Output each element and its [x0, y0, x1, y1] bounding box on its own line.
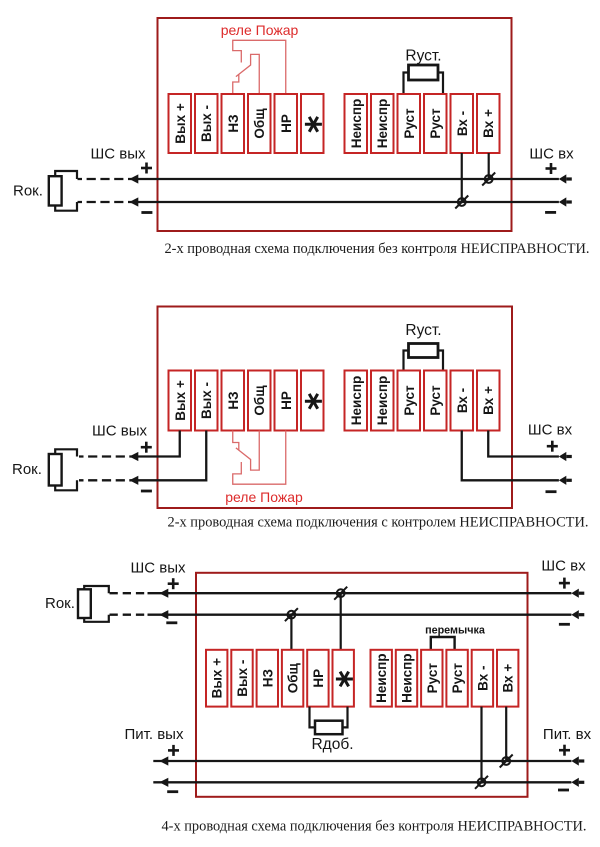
junction node Вх- (D3)	[475, 776, 488, 789]
terminal Неиспр (D1)	[371, 94, 394, 153]
svg-text:Общ: Общ	[286, 662, 301, 693]
terminal Руст (D3)	[446, 650, 467, 707]
svg-text:Вх +: Вх +	[481, 386, 496, 415]
svg-text:реле Пожар: реле Пожар	[225, 489, 303, 505]
terminal Руст (D3)	[421, 650, 442, 707]
relay contact K1 (реле Пожар, D1)	[233, 40, 286, 93]
relay contact K1 (реле Пожар, D2)	[233, 431, 286, 485]
junction node Вх- (D1)	[455, 196, 468, 209]
svg-text:Rуст.: Rуст.	[405, 322, 441, 339]
terminal Вых - (D1)	[195, 94, 218, 153]
terminal Вх - (D3)	[472, 650, 493, 707]
label - (ШС вых D2)	[141, 490, 152, 493]
terminal Вых + (D1)	[169, 94, 192, 153]
resistor Rок (D3)	[78, 586, 109, 622]
terminal Неиспр (D2)	[345, 371, 368, 431]
label - (ШС вх D1)	[545, 211, 556, 214]
svg-text:Руст: Руст	[428, 108, 443, 139]
svg-text:Неиспр: Неиспр	[375, 99, 390, 148]
svg-text:НЗ: НЗ	[260, 669, 275, 687]
svg-text:Руст: Руст	[402, 385, 417, 416]
terminal Неиспр (D2)	[371, 371, 394, 431]
wire Вх+ to Пит+ (D3)	[505, 707, 507, 761]
terminal НР (D1)	[275, 94, 298, 153]
wire ШС+ (D1)	[78, 174, 572, 183]
resistor Rок (D1)	[49, 171, 77, 211]
wire asterisk to ШС+ (D3)	[340, 593, 342, 650]
label + (ШС вх D3)	[559, 582, 570, 585]
label - (Пит. вх D3)	[558, 789, 569, 792]
svg-text:Вх -: Вх -	[455, 111, 470, 136]
wire Вх- to ШС- (D2)	[462, 431, 559, 481]
svg-text:Неиспр: Неиспр	[349, 99, 364, 148]
svg-text:ШС вх: ШС вх	[541, 558, 586, 575]
svg-text:Вых +: Вых +	[173, 103, 188, 144]
terminal Вых + (D2)	[169, 371, 192, 431]
resistor Rуст (D2)	[404, 344, 444, 371]
label - (ШС вых D1)	[141, 211, 152, 214]
wire Вх- to Пит- (D3)	[480, 707, 482, 783]
terminal Неиспр (D1)	[345, 94, 368, 153]
wire Вх+ to ШС+ (D2)	[488, 431, 559, 457]
terminal Вх - (D2)	[451, 371, 474, 431]
terminal НР (D3)	[307, 650, 328, 707]
terminal Руст (D2)	[398, 371, 421, 431]
terminal Руст (D1)	[424, 94, 447, 153]
svg-text:Вх -: Вх -	[455, 388, 470, 413]
terminal asterisk (D3)	[333, 650, 354, 707]
svg-text:ШС вых: ШС вых	[131, 560, 186, 577]
terminal asterisk (D1)	[301, 94, 324, 153]
terminal Неиспр (D3)	[371, 650, 392, 707]
terminal НЗ (D1)	[222, 94, 245, 153]
svg-text:Вх +: Вх +	[481, 109, 496, 138]
svg-text:ШС вых: ШС вых	[91, 146, 146, 163]
terminal Вых - (D3)	[231, 650, 252, 707]
svg-text:Пит. вых: Пит. вых	[125, 726, 184, 743]
svg-text:Общ: Общ	[252, 108, 267, 139]
wire Общ to ШС- (D3)	[290, 615, 292, 650]
svg-text:Неиспр: Неиспр	[400, 653, 415, 702]
svg-text:Rок.: Rок.	[45, 595, 75, 612]
svg-text:2-х проводная схема подключени: 2-х проводная схема подключения с контро…	[168, 515, 589, 531]
svg-text:Руст: Руст	[425, 663, 440, 694]
svg-text:Вых +: Вых +	[210, 658, 225, 699]
wire Вых- to ШС- (D2)	[129, 431, 206, 481]
label + (ШС вх D2)	[547, 445, 558, 448]
terminal Вх - (D1)	[451, 94, 474, 153]
svg-text:НР: НР	[279, 114, 294, 133]
label - (ШС вх D3)	[559, 623, 570, 626]
svg-text:перемычка: перемычка	[425, 625, 486, 637]
svg-text:Неиспр: Неиспр	[375, 376, 390, 425]
junction node Общ (D3)	[285, 608, 298, 621]
wire ШС- (D3)	[110, 610, 585, 619]
wire Пит+ (D3)	[153, 756, 584, 765]
svg-text:2-х проводная схема подключени: 2-х проводная схема подключения без конт…	[164, 241, 589, 257]
svg-text:Вх +: Вх +	[501, 664, 516, 693]
svg-text:Руст: Руст	[428, 385, 443, 416]
label + (Пит. вых D3)	[168, 749, 179, 752]
device box (D1)	[158, 18, 512, 231]
svg-text:Вых -: Вых -	[199, 105, 214, 142]
label + (ШС вых D1)	[141, 167, 152, 170]
svg-text:Пит. вх: Пит. вх	[543, 726, 592, 743]
label - (ШС вх D2)	[546, 490, 557, 493]
svg-text:Руст: Руст	[450, 663, 465, 694]
terminal Вых + (D3)	[206, 650, 227, 707]
terminal Общ (D1)	[248, 94, 271, 153]
terminal Общ (D3)	[282, 650, 303, 707]
svg-text:Rок.: Rок.	[12, 461, 42, 478]
terminal Руст (D2)	[424, 371, 447, 431]
svg-text:Rдоб.: Rдоб.	[311, 736, 353, 753]
label + (Пит. вх D3)	[559, 749, 570, 752]
device box (D3)	[196, 573, 528, 797]
svg-text:ШС вх: ШС вх	[528, 422, 573, 439]
svg-text:реле Пожар: реле Пожар	[221, 22, 299, 38]
svg-text:Вых -: Вых -	[199, 382, 214, 419]
svg-text:НР: НР	[279, 391, 294, 410]
junction node Вх+ (D1)	[482, 173, 495, 186]
jumper перемычка (D3)	[431, 637, 455, 650]
terminal НЗ (D3)	[257, 650, 278, 707]
svg-text:Руст: Руст	[402, 108, 417, 139]
terminal НР (D2)	[275, 371, 298, 431]
label - (ШС вых D3)	[166, 621, 177, 624]
junction node Вх+ (D3)	[500, 755, 513, 768]
terminal Вх + (D2)	[477, 371, 500, 431]
device box (D2)	[158, 307, 513, 509]
label + (ШС вх D1)	[546, 167, 557, 170]
svg-text:Неиспр: Неиспр	[374, 653, 389, 702]
svg-text:Rуст.: Rуст.	[405, 48, 441, 65]
svg-text:НЗ: НЗ	[226, 114, 241, 132]
terminal Руст (D1)	[398, 94, 421, 153]
resistor Rок (D2)	[49, 449, 77, 490]
terminal Общ (D2)	[248, 371, 271, 431]
label - (Пит. вых D3)	[167, 790, 178, 793]
svg-text:НЗ: НЗ	[226, 391, 241, 409]
resistor Rдоб (D3)	[310, 707, 348, 735]
terminal НЗ (D2)	[222, 371, 245, 431]
svg-text:ШС вых: ШС вых	[92, 423, 147, 440]
terminal asterisk (D2)	[301, 371, 324, 431]
wire Вх- to ШС- (D1)	[461, 153, 463, 202]
terminal Вых - (D2)	[195, 371, 218, 431]
junction node asterisk (D3)	[334, 587, 347, 600]
wire Пит- (D3)	[153, 778, 584, 787]
wire ШС+ (D3)	[110, 589, 585, 598]
svg-text:НР: НР	[311, 669, 326, 688]
svg-text:Вых +: Вых +	[173, 380, 188, 421]
svg-text:Неиспр: Неиспр	[349, 376, 364, 425]
label + (ШС вых D2)	[141, 446, 152, 449]
wire ШС- (D1)	[78, 197, 572, 206]
svg-text:Общ: Общ	[252, 385, 267, 416]
terminal Вх + (D3)	[497, 650, 518, 707]
wire Вх+ to ШС+ (D1)	[488, 153, 490, 179]
terminal Вх + (D1)	[477, 94, 500, 153]
label + (ШС вых D3)	[168, 582, 179, 585]
terminal Неиспр (D3)	[396, 650, 417, 707]
dashed wire to Rок + (D2)	[79, 455, 127, 457]
svg-text:Вых -: Вых -	[235, 660, 250, 697]
svg-text:4-х проводная схема подключени: 4-х проводная схема подключения без конт…	[161, 819, 586, 835]
svg-text:Rок.: Rок.	[13, 183, 43, 200]
wire Вых+ to ШС+ (D2)	[129, 431, 179, 457]
dashed wire to Rок - (D2)	[79, 479, 127, 481]
svg-text:ШС вх: ШС вх	[529, 146, 574, 163]
svg-text:Вх -: Вх -	[475, 666, 490, 691]
resistor Rуст (D1)	[404, 65, 444, 94]
